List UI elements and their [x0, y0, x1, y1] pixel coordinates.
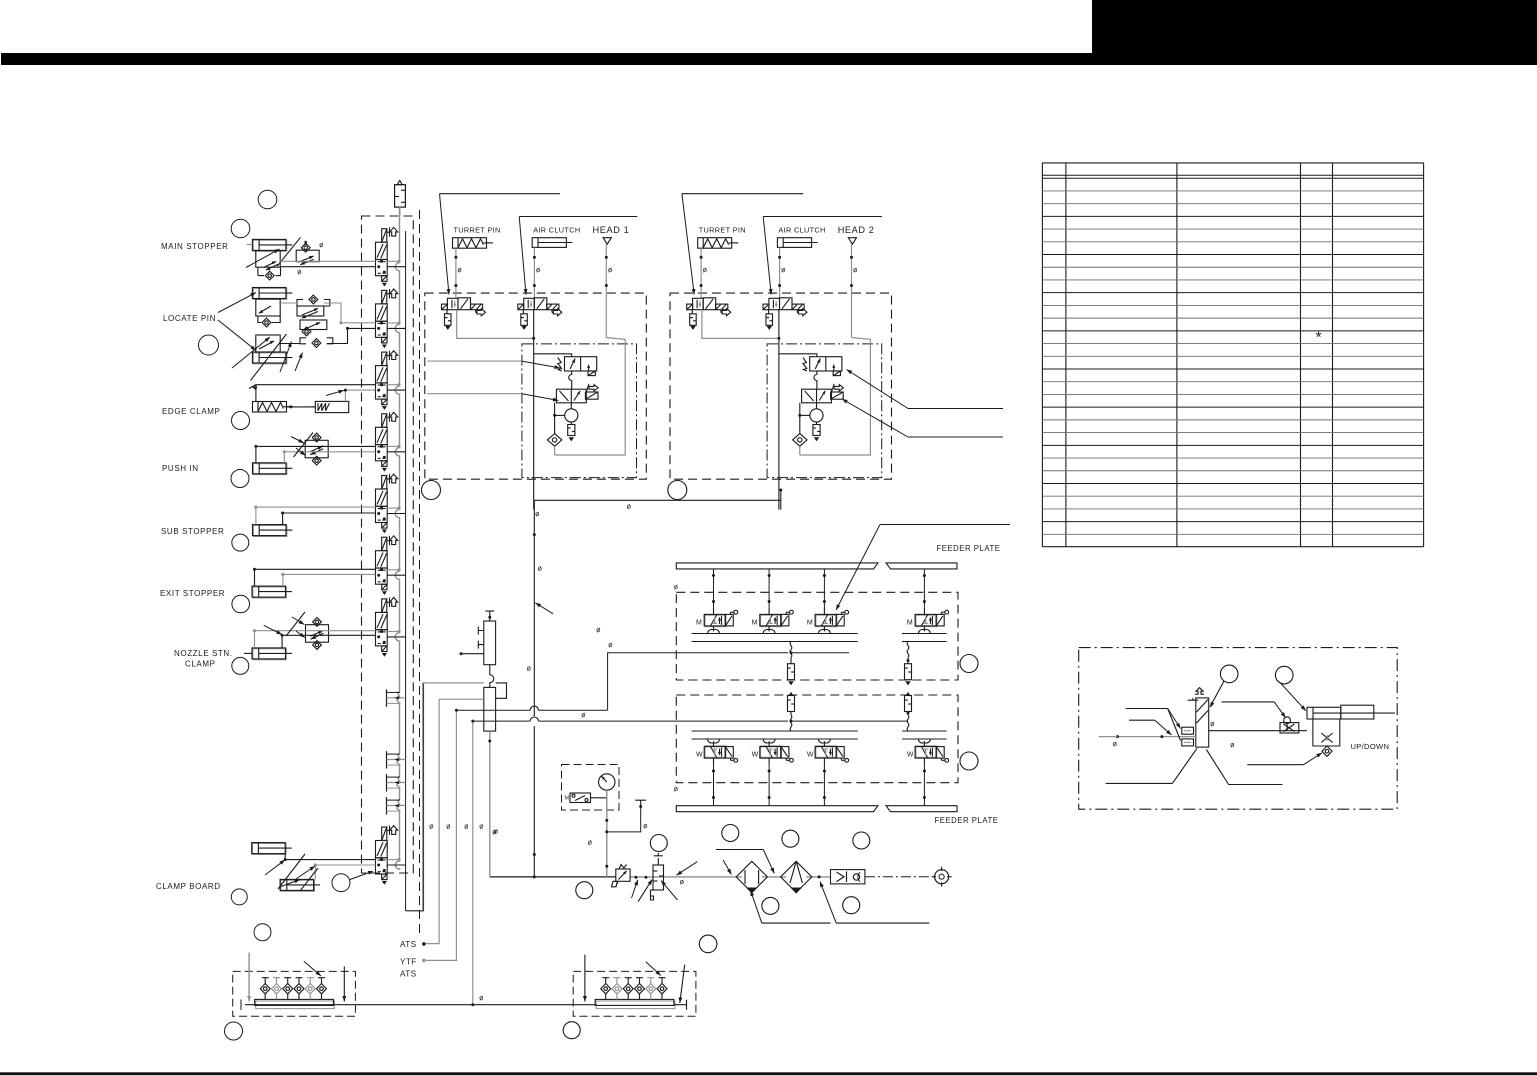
cylinder TURRET PIN HEAD 1 — [453, 238, 494, 249]
LOCATE PIN tubing to station 2 — [341, 322, 376, 324]
HEAD 1 valve output tubing — [457, 310, 534, 339]
svg-text:YTF: YTF — [400, 957, 417, 966]
plugged branch — [607, 806, 641, 832]
HEAD 1 inner regulator dash-dot enclosure — [522, 344, 637, 478]
station 5 port lines — [387, 507, 399, 509]
center manifold connector housing — [496, 683, 507, 698]
station 1 port lines — [387, 260, 399, 262]
title block top right — [1092, 0, 1537, 65]
CLAMP BOARD tubing to station 8 — [285, 854, 375, 859]
clamp manifold left check valves — [264, 978, 266, 984]
manifold supply line — [395, 208, 400, 870]
UP DOWN balloon leaders — [1210, 681, 1224, 707]
svg-text:M: M — [907, 619, 913, 626]
feeder plate top bar — [676, 563, 878, 569]
leader to throttle — [1222, 701, 1275, 703]
station 7 port lines — [387, 631, 399, 633]
solenoid valve station 7 — [376, 598, 398, 656]
svg-text:M: M — [696, 619, 702, 626]
station 4 port lines — [387, 445, 399, 447]
balloon circles left column — [258, 190, 277, 209]
HEAD 2 regulator leader arrows from right — [908, 408, 1003, 410]
feeder top supply squiggle and filter — [790, 642, 792, 658]
supply line A extension — [791, 652, 849, 654]
station 8 port lines — [387, 859, 399, 861]
svg-text:ATS: ATS — [400, 969, 417, 978]
solenoid valve feeder top 1 — [704, 608, 738, 632]
dash-dot pipe to machine — [865, 876, 932, 878]
solenoid valve feeder top 2 — [760, 608, 794, 632]
feeder bottom manifold rail — [692, 730, 858, 732]
svg-text:PUSH IN: PUSH IN — [162, 464, 199, 473]
feeder plate top leader — [880, 524, 1010, 526]
inlet filter HEAD 2 — [793, 434, 807, 447]
nozzle head symbol HEAD 1 — [603, 238, 611, 245]
air inlet arrow — [723, 860, 731, 874]
HEAD 2 pilot leader lines — [682, 193, 803, 195]
pressure regulator HEAD 1 — [558, 358, 562, 372]
manifold connection line — [245, 1004, 595, 1006]
feeder top 1 rail port — [708, 630, 720, 634]
station 3 port lines — [387, 384, 399, 386]
balloon circles HEAD boxes — [422, 481, 441, 500]
slide check valve — [1322, 746, 1332, 756]
HEAD 2 regulator to valve link — [814, 371, 817, 389]
blanking plugs on spare stations — [386, 689, 388, 706]
feeder top 4 rail port — [918, 630, 930, 634]
HEAD 1 regulator leader arrows — [427, 360, 522, 362]
feeder top 2 rail port — [763, 630, 775, 634]
HEAD 1 filter outlet — [554, 446, 556, 455]
HEAD 1 turret pin cylinder line — [455, 248, 457, 298]
center manifold right cap — [674, 1004, 686, 1006]
clamp manifold center check valves — [605, 978, 607, 984]
feeder top dashed enclosure — [676, 592, 958, 680]
solenoid valve feeder bottom 3 — [815, 741, 849, 765]
check valve unit — [831, 870, 865, 884]
feeder top 3 rail port — [818, 630, 830, 634]
feeder bottom dashed enclosure — [676, 695, 958, 783]
flow controls LOCATE PIN ladder — [309, 295, 318, 304]
HEAD 2 branch line — [799, 403, 801, 434]
svg-text:W: W — [696, 752, 703, 759]
feeder top 2 plate line — [768, 569, 770, 608]
exhaust filter HEAD 1 — [568, 425, 575, 436]
supply line B extension — [791, 720, 908, 722]
SUB STOPPER tubing to station 5 — [256, 507, 376, 524]
feeder bottom supply squiggle and filter — [790, 715, 792, 731]
speed controller MAIN STOPPER — [296, 241, 319, 267]
pressure switch — [570, 793, 591, 803]
center manifold block link — [490, 665, 494, 688]
svg-text:ATS: ATS — [400, 940, 417, 949]
balloon circles air line — [650, 835, 667, 852]
HEAD 1 branch line — [554, 403, 556, 434]
center manifold leader — [646, 962, 661, 976]
HEAD 2 head nozzle line — [851, 244, 853, 337]
cylinder EXIT STOPPER — [252, 586, 292, 598]
LOCATE PIN label arrows — [218, 293, 256, 313]
center manifold upper block — [484, 621, 496, 665]
air filter diamond 1 — [736, 861, 767, 892]
valve manifold dashed enclosure — [362, 216, 414, 873]
distribution line 2 — [439, 698, 484, 700]
flow control block PUSH IN — [305, 433, 328, 465]
silencer on manifold supply — [395, 185, 406, 207]
feeder bottom 4 plate line — [923, 765, 925, 806]
main air line — [490, 876, 616, 878]
slide throttle — [1321, 733, 1332, 742]
svg-text:CLAMP: CLAMP — [185, 660, 216, 669]
solenoid valve feeder top 3 — [815, 608, 849, 632]
solenoid valve station 8 — [376, 826, 398, 884]
manifold return to junction hook — [406, 683, 424, 911]
svg-text:TURRET PIN: TURRET PIN — [454, 225, 501, 234]
parts list table — [1042, 163, 1423, 547]
HEAD 2 filter outlet — [799, 446, 801, 455]
NOZZLE STN tubing to station 7 — [255, 631, 376, 648]
center manifold lower block — [484, 687, 496, 731]
HEAD 2 outer dashed enclosure — [670, 293, 892, 479]
air line leader top — [716, 849, 763, 851]
UP DOWN main valve — [1196, 698, 1209, 747]
LOCATE PIN link lines — [280, 302, 297, 304]
pressure regulator HEAD 2 — [803, 358, 807, 372]
HEAD 1 head nozzle line — [605, 244, 607, 337]
cylinder TURRET PIN HEAD 2 — [698, 238, 739, 249]
solenoid valve feeder bottom 4 — [915, 741, 949, 765]
svg-text:W: W — [807, 752, 814, 759]
feeder top 4 plate line — [923, 569, 925, 608]
cylinder MAIN STOPPER — [252, 239, 292, 251]
balloon circle center manifold — [563, 1022, 580, 1039]
svg-text:M: M — [752, 619, 758, 626]
distribution line 4 to feeder bottom — [473, 720, 788, 722]
EDGE CLAMP tubing to station 3 — [256, 385, 376, 402]
LOCATE PIN switch leaders — [232, 337, 270, 368]
crossing hops on distribution lines — [530, 705, 538, 715]
machine connection target — [935, 870, 949, 884]
svg-text:HEAD 1: HEAD 1 — [593, 225, 630, 235]
svg-text:AIR CLUTCH: AIR CLUTCH — [533, 225, 580, 234]
svg-text:MAIN STOPPER: MAIN STOPPER — [161, 242, 229, 251]
solenoid valve HEAD 1 blow — [556, 389, 586, 403]
HEAD 1 air clutch cylinder line — [533, 247, 535, 297]
HEAD 1 outer dashed enclosure — [425, 293, 647, 479]
head outlet manifold line — [534, 499, 781, 501]
clamp manifold center dashed enclosure — [573, 971, 696, 1016]
LOCATE PIN lower valve block — [256, 335, 280, 352]
distribution line 3 to feeder top — [456, 709, 607, 711]
LOCATE PIN upper valve block — [256, 299, 280, 316]
UP DOWN port leaders — [1126, 708, 1168, 710]
solenoid valve HEAD 2 turret — [687, 298, 731, 329]
EXIT STOPPER tubing to station 6 — [255, 569, 376, 586]
PUSH IN switch leaders — [291, 437, 304, 444]
svg-text:SUB STOPPER: SUB STOPPER — [161, 527, 224, 536]
station 6 port lines — [387, 569, 399, 571]
nozzle head symbol HEAD 2 — [848, 238, 856, 245]
feeder plate bottom bar — [676, 806, 878, 812]
cylinder AIR CLUTCH HEAD 1 — [532, 238, 566, 248]
cylinder LOCATE PIN upper — [252, 288, 292, 300]
air regulator — [616, 869, 630, 881]
balloon circles feeder sections — [960, 655, 978, 673]
balloon leader CLAMP BOARD valve — [350, 872, 372, 880]
station 2 port lines — [387, 322, 399, 324]
solenoid valve station 4 — [376, 412, 398, 470]
feeder bottom 3 rail port — [818, 739, 830, 743]
feeder top 1 plate line — [713, 569, 715, 608]
HEAD 2 valve output tubing — [702, 310, 779, 339]
feeder bottom 1 rail port — [708, 739, 720, 743]
feeder top 3 plate line — [823, 569, 825, 608]
HEAD 2 inner regulator dash-dot enclosure — [767, 344, 882, 478]
clamp manifold left dashed enclosure — [233, 971, 356, 1016]
svg-text:W: W — [907, 752, 914, 759]
check valve LOCATE PIN upper — [262, 318, 271, 327]
gauge and pressure switch dashed box — [562, 765, 620, 811]
solenoid valve HEAD 1 turret — [442, 298, 486, 329]
balloon circles UP DOWN — [1220, 665, 1238, 683]
gauge stem — [606, 790, 608, 877]
pressure gauge HEAD 1 — [570, 403, 572, 409]
HEAD 2 turret pin cylinder line — [700, 248, 702, 298]
NOZZLE STN switch leaders — [264, 625, 282, 634]
solenoid valve feeder bottom 2 — [760, 741, 794, 765]
main head supply downline — [533, 500, 535, 877]
MAIN STOPPER valve block — [256, 251, 280, 268]
HEAD 1 pilot leader lines — [440, 193, 560, 195]
svg-text:FEEDER PLATE: FEEDER PLATE — [935, 816, 999, 825]
manifold return line — [405, 231, 407, 911]
cylinder NOZZLE STN CLAMP — [252, 648, 292, 660]
HEAD 1 regulator to valve link — [569, 371, 572, 389]
solenoid valve station 5 — [376, 474, 398, 532]
PUSH IN tubing to station 4 — [256, 446, 376, 462]
border line bottom — [0, 1072, 1537, 1075]
left manifold leader — [304, 961, 321, 976]
solenoid valve feeder top 4 — [915, 608, 949, 632]
HEAD 1 regulator supply jog — [534, 354, 572, 357]
cylinder LOCATE PIN lower — [252, 352, 292, 364]
flow control block NOZZLE STN — [306, 618, 329, 650]
EDGE CLAMP pilot actuator — [315, 401, 348, 412]
filter regulator with drain — [653, 865, 664, 890]
feeder top manifold rail — [692, 633, 858, 635]
svg-text:M: M — [807, 619, 813, 626]
clamp manifold left manifold bar — [256, 1001, 335, 1009]
cylinder UP DOWN slide — [1307, 707, 1341, 719]
check valve under MAIN STOPPER block — [265, 271, 274, 280]
air component leaders bottom — [762, 922, 831, 924]
clamp manifold center manifold bar — [596, 1001, 675, 1009]
air line leader arrows left — [677, 862, 698, 876]
HEAD 2 air clutch cylinder line — [779, 247, 781, 297]
solenoid valve station 6 — [376, 536, 398, 594]
UP DOWN dash-dot enclosure — [1079, 648, 1398, 810]
svg-text:LOCATE PIN: LOCATE PIN — [163, 314, 216, 323]
limit switch leaders MAIN STOPPER — [246, 249, 280, 268]
svg-text:UP/DOWN: UP/DOWN — [1351, 742, 1390, 751]
solenoid valve feeder bottom 1 — [704, 741, 738, 765]
svg-text:TURRET PIN: TURRET PIN — [699, 225, 746, 234]
MAIN STOPPER tubing to station 1 — [280, 260, 375, 262]
title bar top — [1, 53, 1092, 65]
svg-text:EDGE CLAMP: EDGE CLAMP — [162, 407, 220, 416]
svg-text:AIR CLUTCH: AIR CLUTCH — [778, 225, 825, 234]
center manifold upper block ports — [478, 627, 484, 635]
svg-text:HEAD 2: HEAD 2 — [838, 225, 875, 235]
inlet filter HEAD 1 — [547, 434, 561, 447]
svg-text:M: M — [565, 796, 570, 802]
svg-text:*: * — [1316, 330, 1322, 347]
cylinder EDGE CLAMP spring return — [253, 402, 294, 413]
center manifold supply arrows — [584, 955, 586, 1002]
feeder bottom 1 plate line — [713, 765, 715, 806]
svg-text:EXIT STOPPER: EXIT STOPPER — [160, 589, 225, 598]
UP DOWN supply line — [1117, 736, 1195, 738]
pressure gauge HEAD 2 — [816, 403, 818, 409]
exhaust filter HEAD 2 — [813, 425, 820, 436]
UP DOWN slide body — [1313, 719, 1340, 746]
feeder bottom 4 rail port — [918, 739, 930, 743]
feeder bottom 3 plate line — [823, 765, 825, 806]
feeder bottom 2 rail port — [763, 739, 775, 743]
air filter diamond 2 — [781, 861, 812, 892]
cylinder PUSH IN — [253, 463, 293, 475]
cylinder CLAMP BOARD upper — [252, 843, 292, 855]
solenoid valve station 3 — [376, 351, 398, 409]
cylinder AIR CLUTCH HEAD 2 — [777, 238, 811, 248]
distribution line 1 — [423, 682, 484, 684]
solenoid valve HEAD 1 clutch — [518, 298, 562, 329]
HEAD 1 head line jog — [555, 338, 626, 456]
HEAD 2 head line jog — [800, 338, 871, 456]
CLAMP BOARD switch leaders — [265, 860, 285, 875]
feeder bottom 2 plate line — [768, 765, 770, 806]
throttle check valve — [1280, 723, 1299, 733]
svg-text:NOZZLE STN.: NOZZLE STN. — [174, 649, 233, 658]
solenoid valve HEAD 2 clutch — [763, 298, 807, 329]
svg-text:FEEDER PLATE: FEEDER PLATE — [937, 544, 1001, 553]
air line from center manifold — [489, 731, 491, 877]
solenoid valve station 1 — [376, 227, 398, 285]
cylinder CLAMP BOARD lower — [280, 879, 320, 891]
solenoid valve HEAD 2 blow — [802, 389, 832, 403]
svg-text:W: W — [752, 752, 759, 759]
panel dashed boundary line — [419, 210, 421, 938]
solenoid valve station 2 — [376, 289, 398, 347]
cylinder SUB STOPPER — [253, 525, 293, 537]
left manifold supply arrows — [248, 953, 250, 1002]
svg-text:CLAMP BOARD: CLAMP BOARD — [156, 882, 221, 891]
HEAD 2 regulator supply jog — [779, 354, 817, 357]
pressure gauge — [599, 774, 615, 790]
